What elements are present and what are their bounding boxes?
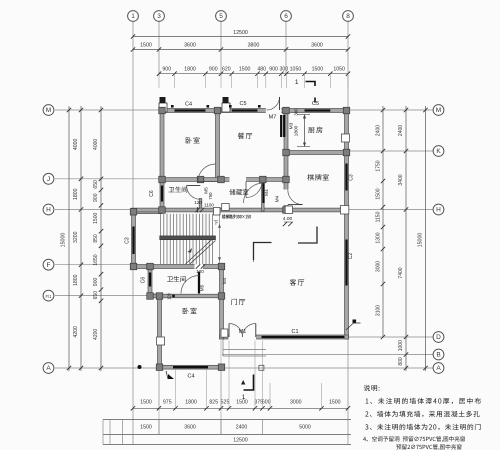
svg-text:1500: 1500: [93, 213, 99, 224]
kitchen dim arrows: [304, 115, 306, 147]
opening M7 white: [266, 108, 282, 113]
axis circle J left: [43, 173, 54, 184]
stair east line: [219, 214, 221, 264]
notes text: [364, 385, 380, 391]
svg-text:2400: 2400: [236, 425, 248, 431]
svg-text:J: J: [47, 176, 50, 183]
axis line D: [349, 336, 434, 338]
axis circle 8: [343, 11, 354, 22]
axis line B: [222, 354, 433, 356]
axis line 6 vertical: [285, 22, 287, 77]
svg-text:1150: 1150: [376, 211, 382, 222]
svg-text:M1: M1: [239, 329, 247, 335]
axis line A: [55, 367, 158, 369]
svg-text:620: 620: [222, 67, 231, 73]
room label storage: [229, 189, 248, 195]
wall bedroom low left: [158, 294, 162, 369]
box bedroom west wall: [157, 337, 165, 345]
svg-text:1500: 1500: [140, 425, 152, 431]
wall left exterior upper: [160, 109, 164, 213]
svg-text:1650: 1650: [93, 254, 99, 265]
svg-text:3200: 3200: [73, 231, 79, 243]
window C8: [161, 186, 163, 202]
axis circle 1: [128, 11, 139, 22]
svg-text:300: 300: [280, 67, 289, 73]
axis line K: [349, 150, 434, 152]
svg-text:C4: C4: [187, 374, 194, 380]
door M3 leaf: [283, 115, 285, 137]
axis circle H left: [43, 204, 54, 215]
opening bath low north: [195, 264, 204, 269]
right dim line outer: [425, 106, 427, 371]
svg-text:C6: C6: [149, 190, 155, 197]
axis line H: [55, 209, 133, 211]
wall bath low divider: [148, 294, 224, 298]
axis circle A right: [433, 363, 444, 374]
wall J: [160, 178, 287, 182]
svg-text:900: 900: [209, 67, 218, 73]
window C2 right: [345, 240, 347, 286]
svg-text:900: 900: [269, 67, 278, 73]
left dim line middle: [80, 106, 82, 371]
axis circle M left: [43, 105, 54, 116]
axis circle 6: [281, 11, 292, 22]
svg-text:3600: 3600: [184, 43, 196, 49]
window C4 top: [175, 109, 206, 111]
svg-text:A: A: [436, 365, 441, 372]
door M7 arc: [267, 97, 280, 110]
svg-text:750: 750: [208, 192, 213, 200]
opening bracket left: [254, 243, 272, 261]
stair label down: [214, 221, 218, 225]
top dim row 900/1800/...: [159, 73, 348, 75]
room label chess: [307, 174, 328, 181]
svg-text:300: 300: [294, 108, 299, 116]
svg-text:5: 5: [219, 13, 223, 20]
room label hall: [231, 299, 245, 305]
right dim line middle: [405, 106, 407, 371]
column cap 2: [222, 103, 230, 112]
svg-text:M: M: [436, 107, 441, 114]
svg-text:1750: 1750: [376, 160, 382, 171]
svg-text:M5: M5: [200, 284, 206, 291]
construction columns: [159, 107, 166, 114]
svg-text:600: 600: [262, 400, 271, 406]
svg-text:1500: 1500: [140, 400, 152, 406]
wall stair bottom / bath top: [132, 265, 224, 269]
stair break line: [186, 238, 214, 264]
svg-text:C4: C4: [185, 102, 192, 108]
door storage east arc: [244, 183, 264, 203]
wall right exterior: [345, 109, 349, 340]
svg-text:3000: 3000: [376, 261, 382, 272]
axis line J: [55, 178, 162, 180]
svg-text:1000: 1000: [398, 340, 404, 351]
axis circle H right: [433, 204, 444, 215]
svg-text:C5: C5: [239, 101, 246, 107]
svg-text:C6: C6: [141, 277, 147, 284]
top dim row 1500/3600/3800/3600: [133, 49, 348, 51]
svg-text:15000: 15000: [418, 233, 424, 248]
svg-text:1500: 1500: [376, 188, 382, 199]
svg-text:120: 120: [196, 269, 204, 274]
left dim line outer: [68, 106, 70, 371]
axis line 3 vertical: [158, 22, 160, 77]
wall top exterior: [160, 109, 348, 113]
wall H: [132, 208, 348, 212]
svg-text:1500: 1500: [140, 43, 152, 49]
svg-text:3100: 3100: [376, 305, 382, 316]
svg-text:C5: C5: [312, 101, 319, 107]
room label dining: [238, 133, 252, 139]
svg-text:2400: 2400: [398, 125, 404, 136]
svg-text:3800: 3800: [248, 43, 260, 49]
svg-text:1500: 1500: [239, 67, 251, 73]
window C3 right: [345, 164, 347, 191]
wall bedroom low bottom: [158, 365, 224, 369]
wall bath low left: [148, 265, 152, 298]
svg-text:3600: 3600: [311, 43, 323, 49]
window C6: [149, 273, 151, 287]
door storage east leaf: [262, 183, 264, 203]
svg-text:F/1: F/1: [45, 294, 52, 299]
svg-text:1300: 1300: [376, 232, 382, 243]
axis circle F left: [43, 259, 54, 270]
svg-text:D: D: [436, 334, 441, 341]
axis circle K right: [433, 146, 444, 157]
window C3 left: [132, 227, 134, 255]
stair treads: [160, 214, 162, 264]
svg-text:4200: 4200: [73, 326, 79, 338]
svg-text:H: H: [46, 207, 51, 214]
svg-text:7400: 7400: [398, 267, 404, 278]
column box chess door: [285, 206, 292, 214]
wall storage east: [262, 182, 265, 212]
axis circle A left: [43, 363, 54, 374]
svg-text:6: 6: [284, 13, 288, 20]
axis line 1 vertical: [132, 22, 134, 446]
svg-text:120: 120: [167, 292, 172, 300]
wall K: [284, 151, 348, 155]
svg-text:650: 650: [93, 291, 99, 300]
axis line F1: [55, 295, 149, 297]
svg-text:525: 525: [221, 400, 230, 406]
left dim line inner: [100, 106, 102, 371]
bottom dim table: [103, 419, 351, 421]
svg-text:4.00: 4.00: [283, 216, 293, 222]
svg-text:C1: C1: [291, 329, 298, 335]
svg-text:K: K: [436, 148, 441, 155]
door M1 right leaf: [255, 324, 257, 338]
opening M1 white: [229, 334, 257, 339]
column box H hall: [222, 204, 230, 211]
svg-text:3: 3: [157, 13, 161, 20]
axis line 5 vertical: [220, 22, 222, 77]
door bedroom top arc: [198, 164, 216, 182]
svg-text:1: 1: [295, 79, 299, 86]
svg-text:4000: 4000: [93, 139, 99, 150]
axis circle M right: [433, 105, 444, 116]
svg-text:850: 850: [93, 234, 99, 243]
window end dots C5a: [229, 105, 232, 108]
svg-text:3600: 3600: [184, 425, 196, 431]
bottom extension lines: [158, 370, 160, 408]
room label bath up: [169, 187, 188, 193]
bottom dim row 1500/975/...: [133, 407, 348, 409]
stair annotation: [222, 214, 251, 218]
svg-text:1800: 1800: [294, 125, 300, 136]
leader living corner: [346, 323, 354, 330]
door M5 low arc: [181, 276, 199, 294]
svg-text:M: M: [46, 107, 51, 114]
svg-text:C2: C2: [348, 253, 354, 260]
svg-text:900: 900: [162, 67, 171, 73]
svg-text:120: 120: [194, 200, 202, 205]
wall dining west: [216, 109, 220, 182]
svg-text:1800: 1800: [73, 188, 79, 200]
room label living: [290, 279, 304, 285]
svg-text:650: 650: [93, 180, 99, 189]
svg-text:5000: 5000: [299, 425, 311, 431]
opening storage door white: [230, 177, 247, 182]
svg-text:4000: 4000: [73, 139, 79, 151]
window end dots C4: [171, 105, 174, 108]
wall stair bay top: [132, 210, 163, 214]
door bath up M5: [187, 185, 201, 187]
svg-text:800: 800: [398, 357, 404, 366]
column box storage SW: [214, 208, 221, 216]
right dim line inner: [382, 106, 384, 337]
svg-text:15000: 15000: [61, 233, 67, 248]
svg-text:C3: C3: [349, 174, 355, 181]
axis circle 5: [216, 11, 227, 22]
svg-text:1100: 1100: [204, 203, 214, 208]
room label kitchen: [308, 127, 322, 133]
wall stair bay left: [132, 210, 136, 269]
axis circle B right: [433, 349, 444, 360]
svg-text:C3: C3: [125, 237, 131, 244]
svg-text:1500: 1500: [312, 67, 324, 73]
stair dim ticks: [195, 208, 199, 212]
column box M1 west: [221, 329, 228, 337]
axis circle 3: [154, 11, 165, 22]
dot bottom left: [138, 365, 142, 369]
flag bottom left: [168, 374, 174, 379]
svg-text:900: 900: [93, 193, 99, 202]
window C1: [262, 336, 345, 338]
axis line M: [55, 109, 160, 111]
svg-text:M4: M4: [264, 189, 270, 196]
svg-text:12500: 12500: [233, 438, 248, 444]
room label bath low: [167, 276, 186, 282]
axis circle F1 left: [43, 290, 54, 301]
opening M4 chess white: [283, 190, 288, 206]
door M1 left leaf: [228, 324, 230, 338]
svg-text:1: 1: [242, 394, 246, 401]
axis circle D right: [433, 332, 444, 343]
top dim line 12500: [133, 36, 348, 38]
svg-text:8: 8: [346, 13, 350, 20]
door storage arc: [246, 182, 262, 198]
svg-text:900: 900: [93, 278, 99, 287]
svg-text:M7: M7: [269, 115, 277, 121]
wall bath up east partition: [199, 199, 202, 212]
window C4 bottom: [173, 366, 208, 368]
svg-text:A: A: [46, 365, 51, 372]
window C5 top left: [232, 109, 258, 111]
column top-left cap: [159, 103, 167, 112]
stair rail: [160, 236, 216, 240]
wall hall west: [220, 265, 224, 340]
svg-text:1050: 1050: [290, 67, 302, 73]
door M5 low leaf: [198, 272, 200, 294]
svg-text:1800: 1800: [185, 400, 197, 406]
room label bedroom low: [183, 308, 197, 314]
svg-text:3000: 3000: [290, 400, 302, 406]
room label bedroom top: [186, 137, 200, 143]
wall bottom D: [220, 335, 349, 339]
svg-text:1: 1: [131, 13, 135, 20]
svg-text:975: 975: [163, 400, 172, 406]
svg-text:B: B: [436, 352, 440, 359]
column box H right: [341, 206, 349, 215]
porch step lines: [223, 349, 266, 351]
svg-text:M4: M4: [275, 195, 281, 202]
svg-text:1800: 1800: [73, 274, 79, 286]
svg-text:3400: 3400: [398, 174, 404, 185]
wall jog F1: [148, 294, 162, 298]
wall kitchen west: [284, 109, 288, 153]
svg-text:H: H: [436, 207, 441, 214]
window C5 top right: [305, 109, 331, 111]
flue box kitchen: [342, 134, 350, 142]
svg-text:1050: 1050: [333, 67, 345, 73]
svg-text:F: F: [47, 262, 51, 269]
wall chessroom west: [284, 151, 288, 213]
svg-text:480: 480: [257, 67, 266, 73]
svg-text:825: 825: [209, 400, 218, 406]
svg-text:12500: 12500: [233, 30, 248, 36]
svg-text:M4: M4: [222, 277, 228, 284]
stair arrow: [188, 248, 193, 253]
svg-text:1800: 1800: [184, 67, 196, 73]
door M4 chess arc: [288, 190, 303, 205]
axis line F: [55, 264, 133, 266]
terrace tick box: [259, 365, 264, 370]
axis line 8 vertical: [347, 22, 349, 109]
opening bracket right: [298, 227, 317, 244]
svg-text:2400: 2400: [376, 125, 382, 136]
svg-text:1500: 1500: [329, 400, 341, 406]
svg-text:4200: 4200: [93, 329, 99, 340]
